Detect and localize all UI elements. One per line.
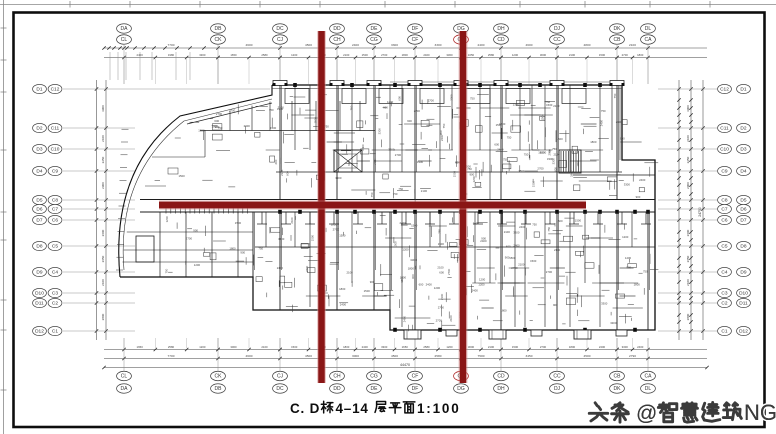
svg-text:C12: C12 bbox=[720, 87, 729, 93]
svg-text:C4: C4 bbox=[52, 270, 58, 276]
svg-text:750: 750 bbox=[393, 192, 398, 196]
svg-text:1200: 1200 bbox=[472, 176, 476, 183]
grid bubble CF (top C-row) bbox=[408, 35, 423, 44]
svg-text:CL: CL bbox=[121, 374, 128, 380]
svg-text:1800: 1800 bbox=[408, 266, 415, 270]
svg-text:DE: DE bbox=[371, 386, 379, 392]
svg-text:2100: 2100 bbox=[569, 53, 576, 57]
svg-text:2700: 2700 bbox=[395, 153, 402, 157]
grid bubble C1 (left) bbox=[48, 326, 62, 335]
svg-text:3450: 3450 bbox=[526, 354, 533, 358]
svg-text:D5: D5 bbox=[740, 198, 746, 204]
svg-text:2700: 2700 bbox=[305, 265, 309, 272]
svg-text:2600: 2600 bbox=[686, 229, 690, 236]
svg-text:1500: 1500 bbox=[362, 53, 369, 57]
grid bubble DJ (top D-row) bbox=[550, 24, 565, 33]
svg-text:3300: 3300 bbox=[624, 183, 631, 187]
svg-text:1500: 1500 bbox=[270, 126, 277, 130]
svg-text:CK: CK bbox=[215, 374, 223, 380]
svg-text:3300: 3300 bbox=[378, 128, 382, 135]
svg-text:CB: CB bbox=[614, 374, 622, 380]
svg-text:750: 750 bbox=[442, 123, 446, 128]
grid bubble CL (bottom C-row) bbox=[117, 371, 132, 380]
svg-text:600: 600 bbox=[439, 271, 444, 275]
svg-text:1500: 1500 bbox=[530, 259, 537, 263]
grid bubble DA (bottom D-row) bbox=[117, 384, 132, 393]
svg-text:1500: 1500 bbox=[311, 235, 315, 242]
svg-text:3300: 3300 bbox=[278, 237, 285, 241]
svg-text:7700: 7700 bbox=[168, 43, 175, 47]
svg-text:1200: 1200 bbox=[479, 277, 486, 281]
svg-text:3300: 3300 bbox=[446, 53, 453, 57]
svg-text:C5: C5 bbox=[721, 244, 727, 250]
grid bubble CD (bottom C-row) bbox=[494, 371, 509, 380]
grid bubble C1 (right) bbox=[718, 326, 732, 335]
svg-text:1200: 1200 bbox=[400, 276, 407, 280]
grid bubble DB (bottom D-row) bbox=[211, 384, 226, 393]
svg-text:1650: 1650 bbox=[468, 53, 475, 57]
svg-text:1500: 1500 bbox=[557, 137, 564, 141]
svg-text:2100: 2100 bbox=[686, 135, 690, 142]
svg-text:C9: C9 bbox=[52, 169, 58, 175]
svg-text:2900: 2900 bbox=[686, 182, 690, 189]
room fixtures bbox=[203, 100, 644, 304]
grid bubble DB (top D-row) bbox=[211, 24, 226, 33]
svg-text:1500: 1500 bbox=[235, 221, 242, 225]
svg-text:1500: 1500 bbox=[575, 218, 582, 222]
grid bubble CF (bottom C-row) bbox=[408, 371, 423, 380]
grid bubble D5 (left) bbox=[33, 195, 47, 204]
svg-text:750: 750 bbox=[470, 97, 475, 101]
svg-text:DL: DL bbox=[645, 386, 652, 392]
grid bubble CH (top C-row) bbox=[330, 35, 345, 44]
grid bubble D7 (right) bbox=[737, 215, 751, 224]
svg-text:2400: 2400 bbox=[352, 43, 359, 47]
building outline bbox=[116, 85, 655, 330]
grid bubble DG (bottom D-row) bbox=[454, 384, 469, 393]
grid bubble D2 (left) bbox=[33, 123, 47, 132]
svg-text:2400: 2400 bbox=[639, 178, 646, 182]
svg-text:600: 600 bbox=[274, 159, 278, 164]
parapet line above top wall bbox=[272, 82, 622, 89]
svg-text:C. D: C. D bbox=[290, 401, 320, 416]
svg-text:CA: CA bbox=[645, 374, 653, 380]
grid bubble DG (top D-row) bbox=[454, 24, 469, 33]
svg-text:1800: 1800 bbox=[229, 246, 236, 250]
svg-text:3300: 3300 bbox=[391, 43, 398, 47]
svg-text:2700: 2700 bbox=[540, 345, 547, 349]
svg-text:CK: CK bbox=[215, 37, 223, 43]
svg-text:DC: DC bbox=[276, 386, 284, 392]
svg-text:C8: C8 bbox=[52, 198, 58, 204]
svg-text:3300: 3300 bbox=[277, 107, 284, 111]
svg-text:2100: 2100 bbox=[513, 103, 520, 107]
svg-text:2600: 2600 bbox=[101, 229, 105, 236]
svg-text:2400: 2400 bbox=[426, 283, 433, 287]
svg-text:900: 900 bbox=[240, 251, 245, 255]
grid bubble D10 (left) bbox=[33, 288, 47, 297]
grid bubble C4 (left) bbox=[48, 267, 62, 276]
svg-text:1800: 1800 bbox=[402, 53, 409, 57]
svg-text:2700: 2700 bbox=[373, 158, 377, 165]
svg-text:2700: 2700 bbox=[229, 109, 236, 113]
svg-text:900: 900 bbox=[470, 173, 475, 177]
svg-text:2100: 2100 bbox=[504, 230, 511, 234]
svg-text:1:100: 1:100 bbox=[417, 401, 461, 416]
svg-text:1800: 1800 bbox=[331, 223, 338, 227]
svg-text:DH: DH bbox=[497, 26, 505, 32]
svg-text:1650: 1650 bbox=[137, 345, 144, 349]
grid extension lines bbox=[63, 45, 717, 371]
svg-text:DB: DB bbox=[215, 26, 223, 32]
svg-text:2400: 2400 bbox=[478, 43, 485, 47]
grid bubble DC (top D-row) bbox=[273, 24, 288, 33]
svg-text:DL: DL bbox=[645, 26, 652, 32]
grid bubble C12 (right) bbox=[718, 84, 732, 93]
grid bubble C5 (right) bbox=[718, 241, 732, 250]
svg-text:C9: C9 bbox=[721, 169, 727, 175]
svg-text:600: 600 bbox=[398, 96, 402, 101]
svg-text:1500: 1500 bbox=[291, 345, 298, 349]
svg-text:1200: 1200 bbox=[434, 286, 441, 290]
svg-text:750: 750 bbox=[524, 153, 529, 157]
svg-text:600: 600 bbox=[286, 171, 290, 176]
svg-text:1500: 1500 bbox=[411, 223, 418, 227]
svg-text:2700: 2700 bbox=[436, 319, 443, 323]
svg-text:2100: 2100 bbox=[629, 43, 636, 47]
svg-text:1500: 1500 bbox=[339, 234, 346, 238]
svg-text:CF: CF bbox=[412, 37, 419, 43]
grid bubble D11 (right) bbox=[737, 298, 751, 307]
grid bubble D8 (right) bbox=[737, 241, 751, 250]
grid bubble C6 (right) bbox=[718, 215, 732, 224]
svg-text:750: 750 bbox=[503, 157, 508, 161]
svg-text:1200: 1200 bbox=[512, 53, 519, 57]
svg-text:D6: D6 bbox=[36, 207, 42, 213]
svg-text:C3: C3 bbox=[721, 291, 727, 297]
elevator core with X symbol bbox=[334, 150, 362, 172]
left wing interior walls bbox=[123, 101, 376, 277]
svg-text:DD: DD bbox=[333, 26, 341, 32]
grid bubble C10 (left) bbox=[48, 144, 62, 153]
svg-text:3900: 3900 bbox=[686, 105, 690, 112]
wall detail segments bbox=[155, 95, 659, 332]
grid bubble D10 (right) bbox=[737, 288, 751, 297]
svg-text:1800: 1800 bbox=[576, 160, 580, 167]
svg-text:2700: 2700 bbox=[381, 53, 388, 57]
svg-text:1800: 1800 bbox=[634, 283, 641, 287]
grid bubble D8 (left) bbox=[33, 241, 47, 250]
svg-text:CJ: CJ bbox=[277, 374, 284, 380]
grid bubble D9 (right) bbox=[737, 267, 751, 276]
grid bubble DH (bottom D-row) bbox=[494, 384, 509, 393]
grid bubble D11 (left) bbox=[33, 298, 47, 307]
svg-text:C7: C7 bbox=[52, 207, 58, 213]
svg-text:2100: 2100 bbox=[290, 217, 294, 224]
svg-text:C8: C8 bbox=[721, 198, 727, 204]
grid bubble DH (top D-row) bbox=[494, 24, 509, 33]
svg-text:2100: 2100 bbox=[440, 293, 444, 300]
svg-text:DJ: DJ bbox=[554, 26, 561, 32]
grid bubble C11 (right) bbox=[718, 123, 732, 132]
grid bubble C3 (right) bbox=[718, 288, 732, 297]
svg-text:600: 600 bbox=[494, 143, 499, 147]
svg-text:C2: C2 bbox=[52, 301, 58, 307]
svg-text:1200: 1200 bbox=[165, 216, 169, 223]
svg-text:DC: DC bbox=[276, 26, 284, 32]
svg-text:1200: 1200 bbox=[622, 235, 629, 239]
stair core with hatched treads (right) bbox=[559, 150, 655, 175]
grid bubble DF (top D-row) bbox=[408, 24, 423, 33]
svg-text:2700: 2700 bbox=[546, 270, 553, 274]
svg-text:3000: 3000 bbox=[230, 345, 237, 349]
grid bubble CA (bottom C-row) bbox=[641, 371, 656, 380]
grid bubble CC (bottom C-row) bbox=[550, 371, 565, 380]
svg-text:1800: 1800 bbox=[590, 140, 597, 144]
svg-text:2700: 2700 bbox=[438, 305, 445, 309]
grid bubble C4 (right) bbox=[718, 267, 732, 276]
grid bubble DK (top D-row) bbox=[610, 24, 625, 33]
svg-text:DG: DG bbox=[457, 386, 465, 392]
svg-text:CC: CC bbox=[553, 374, 561, 380]
svg-text:2400: 2400 bbox=[637, 345, 644, 349]
svg-text:1800: 1800 bbox=[538, 150, 545, 154]
svg-text:1200: 1200 bbox=[499, 122, 506, 126]
grid bubble D1 (left) bbox=[33, 84, 47, 93]
svg-text:3300: 3300 bbox=[610, 321, 617, 325]
svg-text:D8: D8 bbox=[36, 244, 42, 250]
grid bubble CB (bottom C-row) bbox=[610, 371, 625, 380]
svg-text:C10: C10 bbox=[51, 147, 60, 153]
svg-text:2800: 2800 bbox=[686, 313, 690, 320]
svg-text:1500: 1500 bbox=[599, 53, 606, 57]
svg-text:7700: 7700 bbox=[168, 354, 175, 358]
svg-text:2100: 2100 bbox=[518, 262, 525, 266]
grid bubble C2 (right) bbox=[718, 298, 732, 307]
svg-text:DA: DA bbox=[121, 26, 129, 32]
svg-text:1800: 1800 bbox=[339, 287, 346, 291]
svg-text:600: 600 bbox=[407, 119, 412, 123]
svg-text:4500: 4500 bbox=[584, 354, 591, 358]
svg-text:900: 900 bbox=[439, 130, 443, 135]
svg-text:2400: 2400 bbox=[599, 345, 606, 349]
svg-text:2250: 2250 bbox=[686, 156, 690, 163]
svg-text:DK: DK bbox=[614, 386, 622, 392]
grid bubble CB (top C-row) bbox=[610, 35, 625, 44]
svg-text:CA: CA bbox=[645, 37, 653, 43]
grid bubble D7 (left) bbox=[33, 215, 47, 224]
svg-text:2400: 2400 bbox=[497, 148, 504, 152]
grid bubble CE (top C-row) bbox=[454, 35, 469, 44]
svg-text:3000: 3000 bbox=[352, 354, 359, 358]
svg-text:D4: D4 bbox=[36, 169, 42, 175]
svg-text:D10: D10 bbox=[739, 291, 748, 297]
svg-text:1500: 1500 bbox=[531, 180, 535, 187]
corridor dimension tick row bbox=[166, 209, 248, 214]
svg-text:2100: 2100 bbox=[616, 120, 623, 124]
svg-text:CJ: CJ bbox=[277, 37, 284, 43]
svg-text:2400: 2400 bbox=[519, 225, 526, 229]
svg-text:3300: 3300 bbox=[547, 157, 554, 161]
grid bubble DE (bottom D-row) bbox=[367, 384, 382, 393]
svg-text:1650: 1650 bbox=[402, 345, 409, 349]
svg-text:CH: CH bbox=[333, 37, 341, 43]
grid bubble CL (top C-row) bbox=[117, 35, 132, 44]
svg-text:D12: D12 bbox=[35, 329, 44, 335]
svg-text:DJ: DJ bbox=[554, 386, 561, 392]
svg-text:2400: 2400 bbox=[402, 316, 406, 323]
svg-text:CF: CF bbox=[412, 374, 419, 380]
svg-text:900: 900 bbox=[636, 195, 641, 199]
grid bubble DA (top D-row) bbox=[117, 24, 132, 33]
svg-text:1800: 1800 bbox=[198, 128, 205, 132]
grid bubble D6 (right) bbox=[737, 204, 751, 213]
svg-text:900: 900 bbox=[347, 161, 351, 166]
svg-text:3300: 3300 bbox=[435, 43, 442, 47]
svg-text:3300: 3300 bbox=[622, 345, 629, 349]
grid bubble C5 (left) bbox=[48, 241, 62, 250]
grid bubble DC (bottom D-row) bbox=[273, 384, 288, 393]
svg-text:D9: D9 bbox=[740, 270, 746, 276]
svg-text:2800: 2800 bbox=[101, 313, 105, 320]
svg-text:1800: 1800 bbox=[569, 345, 576, 349]
svg-text:3300: 3300 bbox=[513, 230, 520, 234]
svg-text:2100: 2100 bbox=[686, 279, 690, 286]
grid bubble D12 (right) bbox=[737, 326, 751, 335]
svg-text:2400: 2400 bbox=[600, 120, 604, 127]
svg-text:750: 750 bbox=[269, 108, 274, 112]
svg-text:600: 600 bbox=[411, 274, 415, 279]
svg-text:44470: 44470 bbox=[400, 363, 410, 367]
svg-text:D3: D3 bbox=[36, 147, 42, 153]
svg-text:750: 750 bbox=[349, 105, 353, 110]
svg-text:750: 750 bbox=[613, 93, 617, 98]
grid bubble C9 (right) bbox=[718, 166, 732, 175]
grid bubble DE (top D-row) bbox=[367, 24, 382, 33]
grid bubble DF (bottom D-row) bbox=[408, 384, 423, 393]
svg-text:2400: 2400 bbox=[244, 124, 251, 128]
svg-text:900: 900 bbox=[626, 265, 631, 269]
svg-text:CC: CC bbox=[553, 37, 561, 43]
svg-text:CG: CG bbox=[370, 37, 378, 43]
grid bubble DJ (bottom D-row) bbox=[550, 384, 565, 393]
svg-text:1500: 1500 bbox=[364, 289, 371, 293]
grid bubble CC (top C-row) bbox=[550, 35, 565, 44]
grid bubble D3 (left) bbox=[33, 144, 47, 153]
svg-text:2700: 2700 bbox=[547, 149, 551, 156]
svg-text:1500: 1500 bbox=[453, 171, 457, 178]
svg-text:DH: DH bbox=[497, 386, 505, 392]
svg-text:C1: C1 bbox=[52, 329, 58, 335]
svg-text:750: 750 bbox=[552, 147, 557, 151]
svg-text:1500: 1500 bbox=[540, 114, 544, 121]
svg-text:D2: D2 bbox=[740, 126, 746, 132]
svg-text:900: 900 bbox=[215, 125, 220, 129]
grid bubble D6 (left) bbox=[33, 204, 47, 213]
svg-text:D12: D12 bbox=[739, 329, 748, 335]
red overlay vertical axis line 2 bbox=[459, 31, 468, 383]
structural columns bbox=[273, 81, 650, 332]
svg-text:3300: 3300 bbox=[381, 345, 388, 349]
svg-text:D2: D2 bbox=[36, 126, 42, 132]
svg-text:2100: 2100 bbox=[554, 153, 561, 157]
svg-text:2100: 2100 bbox=[421, 189, 428, 193]
svg-text:C11: C11 bbox=[720, 126, 729, 132]
svg-text:2700: 2700 bbox=[622, 53, 629, 57]
svg-text:2100: 2100 bbox=[347, 271, 354, 275]
grid bubble CG (bottom C-row) bbox=[367, 371, 382, 380]
grid bubble C12 (left) bbox=[48, 84, 62, 93]
svg-text:C4: C4 bbox=[721, 270, 727, 276]
svg-text:1800: 1800 bbox=[500, 309, 507, 313]
grid bubble D9 (left) bbox=[33, 267, 47, 276]
svg-text:@: @ bbox=[636, 402, 657, 425]
svg-text:2700: 2700 bbox=[216, 112, 223, 116]
svg-text:C7: C7 bbox=[721, 207, 727, 213]
svg-text:2400: 2400 bbox=[400, 221, 407, 225]
grid bubble DL (top D-row) bbox=[641, 24, 656, 33]
svg-text:2580: 2580 bbox=[168, 345, 175, 349]
svg-text:900: 900 bbox=[370, 280, 375, 284]
grid bubble C2 (left) bbox=[48, 298, 62, 307]
svg-text:D11: D11 bbox=[739, 301, 748, 307]
svg-text:D3: D3 bbox=[740, 147, 746, 153]
svg-text:1500: 1500 bbox=[179, 174, 186, 178]
svg-text:2400: 2400 bbox=[423, 53, 430, 57]
svg-text:C3: C3 bbox=[52, 291, 58, 297]
grid bubble D1 (right) bbox=[737, 84, 751, 93]
svg-text:D11: D11 bbox=[35, 301, 44, 307]
svg-text:2100: 2100 bbox=[261, 345, 268, 349]
svg-text:2100: 2100 bbox=[280, 169, 284, 176]
svg-text:4600: 4600 bbox=[246, 43, 253, 47]
svg-text:2100: 2100 bbox=[553, 104, 560, 108]
svg-text:D6: D6 bbox=[740, 207, 746, 213]
grid bubble C7 (left) bbox=[48, 204, 62, 213]
svg-text:DF: DF bbox=[412, 386, 419, 392]
red overlay horizontal axis line bbox=[159, 200, 586, 209]
watermark 头条@智慧建筑NG bbox=[589, 400, 776, 425]
drawing title C.D栋4-14层平面1:100 bbox=[290, 401, 461, 416]
svg-text:DA: DA bbox=[121, 386, 129, 392]
svg-text:CH: CH bbox=[333, 374, 341, 380]
grid bubble D4 (right) bbox=[737, 166, 751, 175]
svg-text:3300: 3300 bbox=[601, 302, 608, 306]
svg-text:2650: 2650 bbox=[101, 255, 105, 262]
svg-text:1200: 1200 bbox=[199, 345, 206, 349]
grid bubble CK (bottom C-row) bbox=[211, 371, 226, 380]
grid bubble CK (top C-row) bbox=[211, 35, 226, 44]
grid bubble CJ (top C-row) bbox=[273, 35, 288, 44]
svg-text:DE: DE bbox=[371, 26, 379, 32]
svg-text:750: 750 bbox=[547, 226, 551, 231]
svg-text:750: 750 bbox=[398, 187, 403, 191]
grid bubble CG (top C-row) bbox=[367, 35, 382, 44]
svg-text:1800: 1800 bbox=[637, 53, 644, 57]
grid bubble CA (top C-row) bbox=[641, 35, 656, 44]
svg-text:CG: CG bbox=[370, 374, 378, 380]
svg-text:3000: 3000 bbox=[468, 345, 475, 349]
svg-text:3300: 3300 bbox=[410, 258, 417, 262]
balcony bays along bottom edge bbox=[404, 330, 627, 339]
svg-text:4800: 4800 bbox=[584, 43, 591, 47]
svg-text:1500: 1500 bbox=[438, 242, 445, 246]
grid bubble D5 (right) bbox=[737, 195, 751, 204]
svg-text:2700: 2700 bbox=[511, 266, 518, 270]
grid bubble C8 (right) bbox=[718, 195, 732, 204]
svg-text:4500: 4500 bbox=[391, 354, 398, 358]
grid bubble DL (bottom D-row) bbox=[641, 384, 656, 393]
